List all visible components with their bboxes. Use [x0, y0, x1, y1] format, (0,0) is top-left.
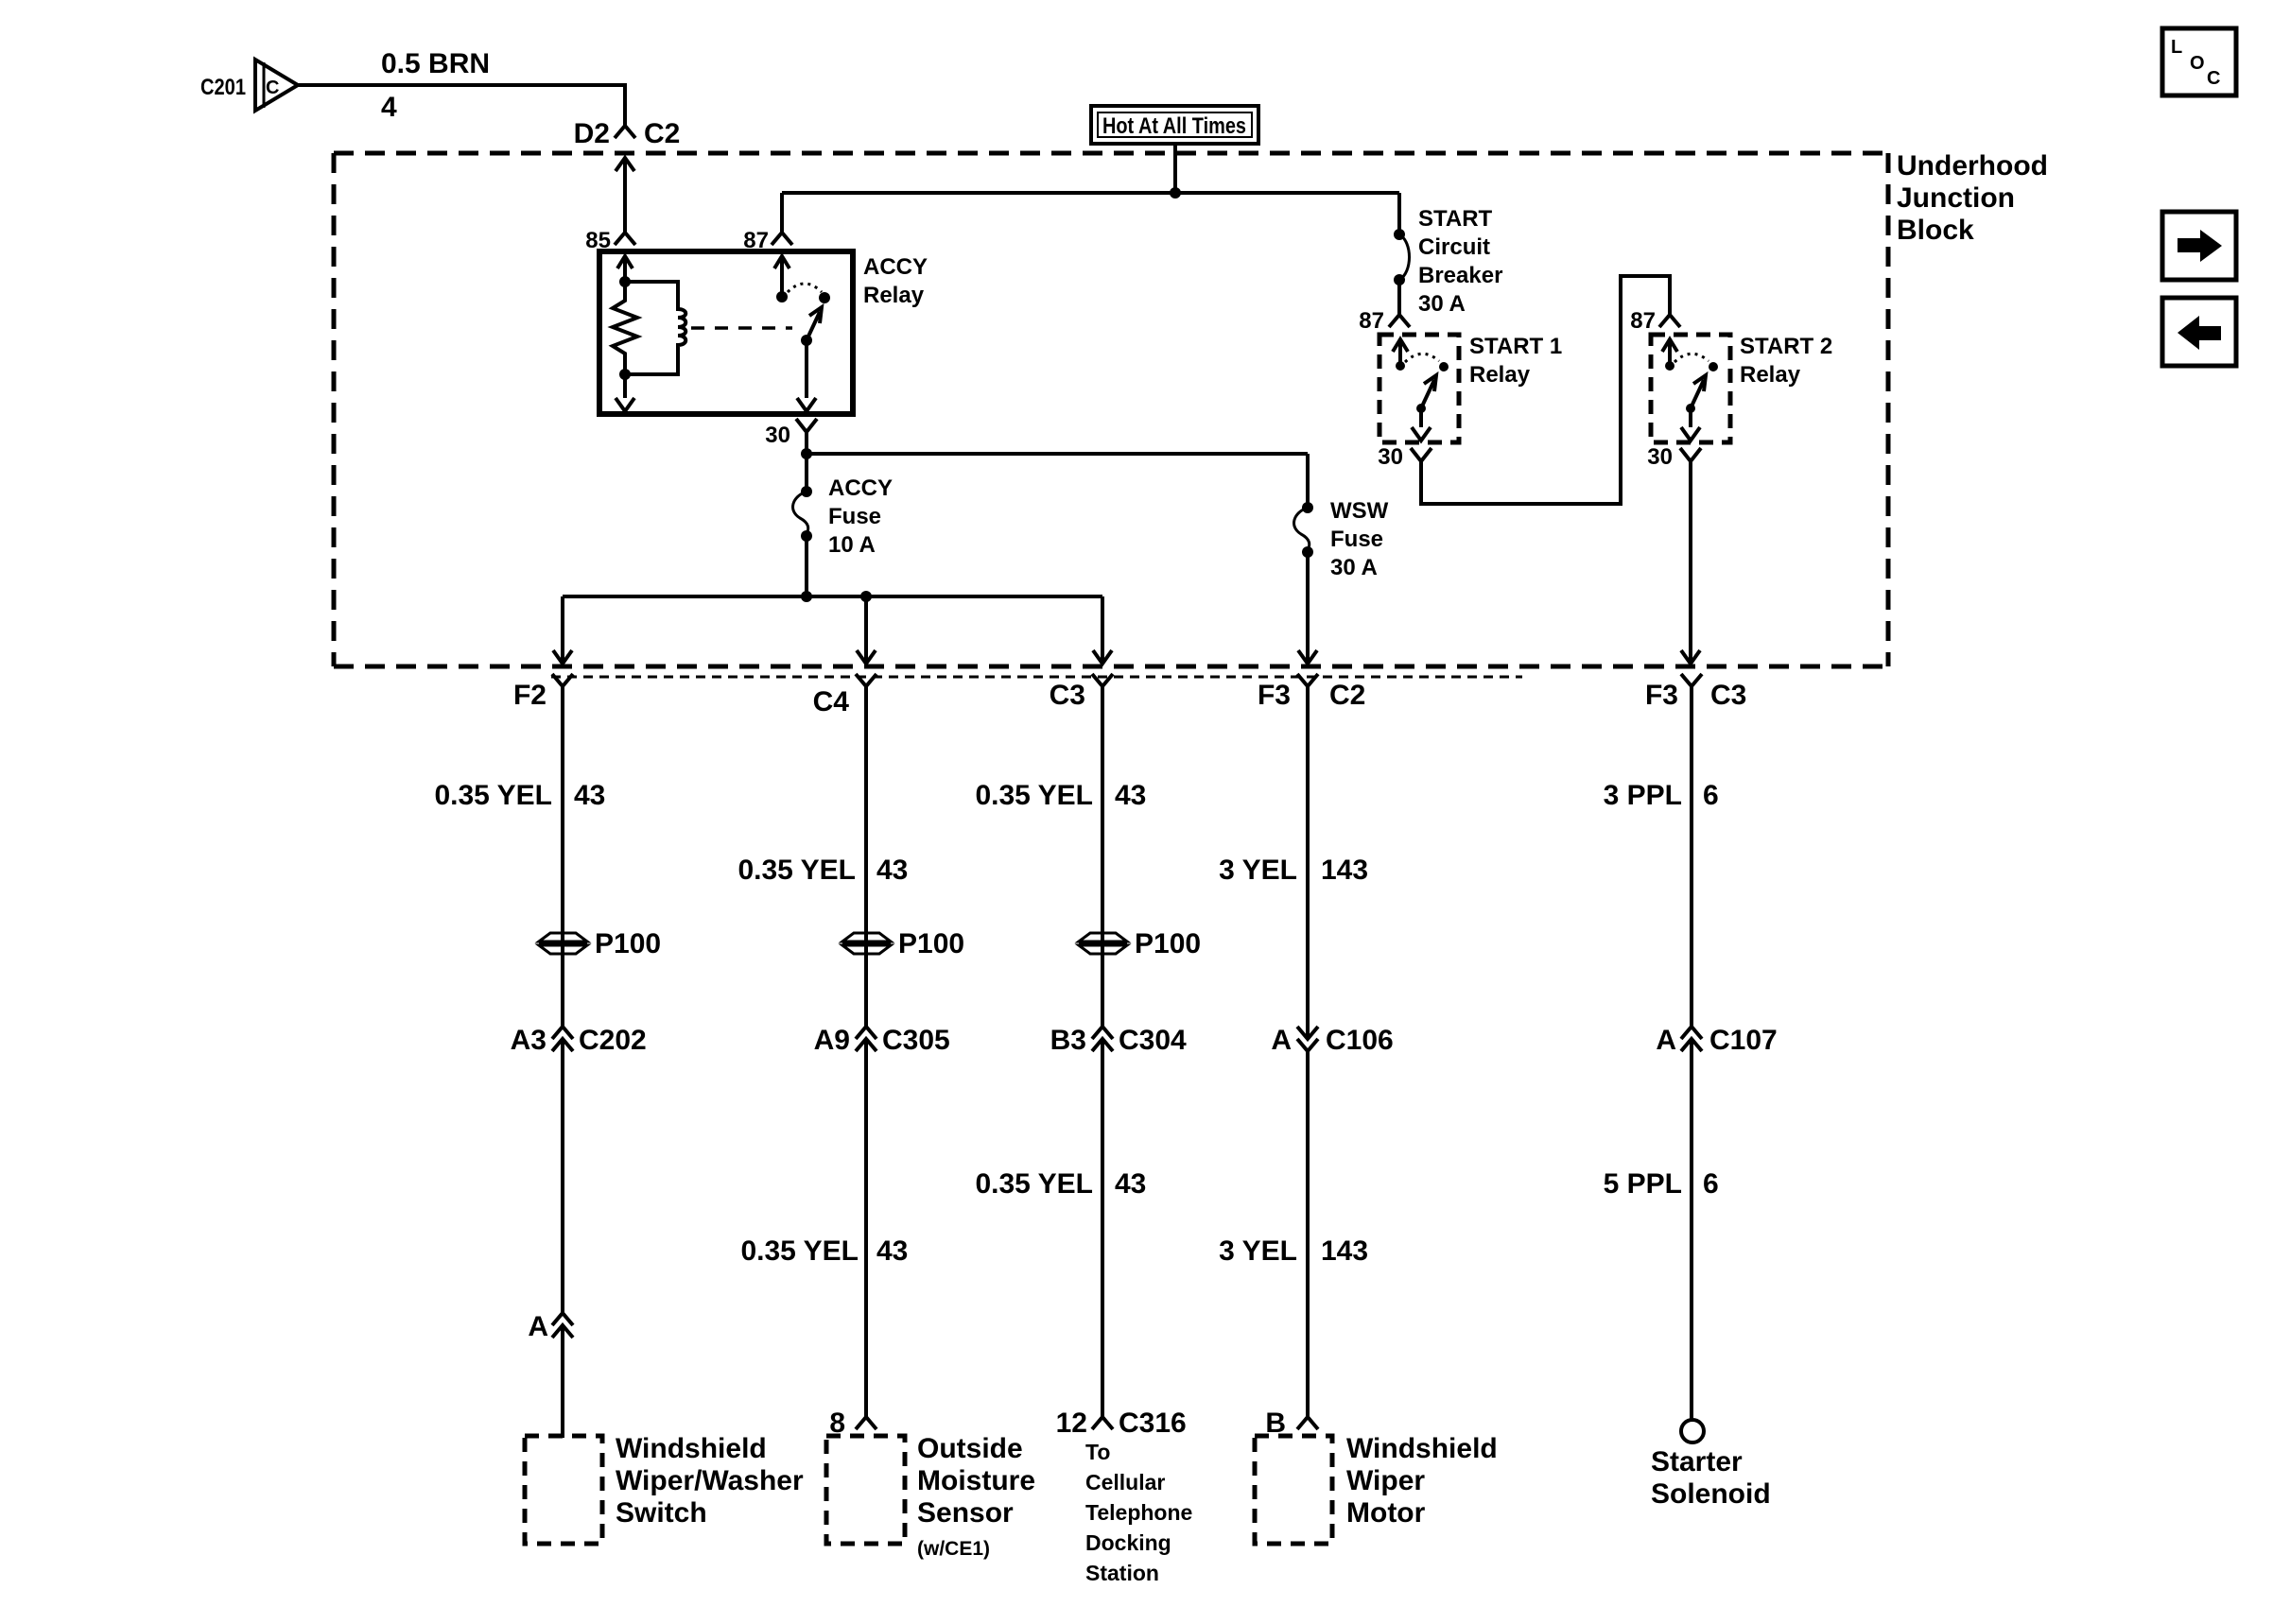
svg-text:A: A: [1271, 1025, 1292, 1056]
svg-text:Underhood: Underhood: [1897, 150, 2048, 181]
column C4: wire to outside moisture sensor: [864, 686, 868, 1027]
terminal 87 of START 2 relay: [1630, 308, 1680, 334]
svg-text:F2: F2: [513, 680, 547, 711]
svg-text:Junction: Junction: [1897, 182, 2015, 214]
svg-text:WSW: WSW: [1330, 498, 1389, 524]
svg-text:Starter: Starter: [1651, 1446, 1743, 1477]
wire drop to F2: [553, 596, 572, 664]
junction block boundary Underhood Junction Block: [334, 153, 1888, 666]
wire from ACCY relay 30 to fuse and WSW branch: [807, 432, 1308, 454]
svg-text:30 A: 30 A: [1418, 291, 1466, 317]
svg-text:ACCY: ACCY: [863, 254, 928, 280]
svg-text:0.35 YEL: 0.35 YEL: [975, 780, 1093, 811]
svg-text:Station: Station: [1085, 1561, 1159, 1585]
ACCY relay U1: [599, 251, 928, 414]
svg-text:30: 30: [1647, 444, 1673, 470]
svg-text:C: C: [2207, 68, 2220, 89]
svg-text:Cellular: Cellular: [1085, 1470, 1165, 1494]
svg-text:0.35 YEL: 0.35 YEL: [737, 855, 856, 886]
svg-text:Docking: Docking: [1085, 1530, 1171, 1555]
svg-text:Moisture: Moisture: [917, 1465, 1035, 1496]
svg-text:43: 43: [876, 1235, 908, 1267]
svg-text:Fuse: Fuse: [1330, 527, 1383, 552]
svg-text:Telephone: Telephone: [1085, 1500, 1192, 1525]
relay contact dotted arc: [788, 284, 822, 292]
svg-text:ACCY: ACCY: [828, 475, 893, 501]
svg-text:(w/CE1): (w/CE1): [917, 1538, 990, 1560]
wire from Hot At All Times tag down to feeder: [1173, 144, 1177, 193]
svg-text:C304: C304: [1119, 1025, 1187, 1056]
connector A / C106: [1271, 1025, 1393, 1056]
resistor (coil suppression): [613, 282, 637, 374]
svg-text:P100: P100: [595, 928, 661, 959]
svg-text:C2: C2: [644, 118, 680, 149]
svg-text:C316: C316: [1119, 1408, 1187, 1439]
connector A / C107: [1656, 1025, 1777, 1056]
wire from START 2 relay 30 to bottom border: [1681, 461, 1700, 664]
connector C3 at junction block face: [1050, 674, 1113, 711]
svg-text:0.35 YEL: 0.35 YEL: [740, 1235, 859, 1267]
grommet P100 (C3): [1079, 928, 1201, 959]
relay actuation dashed link: [691, 326, 792, 330]
START 2 relay: [1651, 334, 1832, 442]
relay switch terminal 87 lead: [774, 256, 789, 268]
distribution wire from ACCY fuse: [553, 591, 1112, 664]
svg-text:43: 43: [876, 855, 908, 886]
column F2: wire to windshield wiper/washer switch: [561, 686, 564, 1027]
svg-text:C3: C3: [1050, 680, 1085, 711]
svg-text:Fuse: Fuse: [828, 504, 881, 529]
terminal 30 of START 2 relay: [1647, 444, 1701, 470]
column F3/C3: wire to starter solenoid: [1690, 686, 1693, 1027]
START circuit breaker: [1394, 193, 1502, 317]
WSW fuse F2: [1294, 454, 1389, 664]
Hot At All Times tag: [1091, 106, 1258, 144]
wire terminal 85 riser: [585, 158, 635, 253]
svg-text:0.35 YEL: 0.35 YEL: [975, 1168, 1093, 1200]
terminal 8 of outside moisture sensor: [829, 1408, 876, 1439]
connector C4 at junction block face: [813, 674, 876, 717]
connector 12 / C316: [1056, 1408, 1187, 1439]
svg-text:Relay: Relay: [1740, 362, 1801, 388]
svg-text:C305: C305: [882, 1025, 950, 1056]
svg-text:C201: C201: [200, 75, 246, 100]
svg-text:C2: C2: [1329, 680, 1365, 711]
svg-text:0.35 YEL: 0.35 YEL: [434, 780, 552, 811]
relay coil: [625, 282, 685, 374]
svg-text:C202: C202: [579, 1025, 647, 1056]
svg-text:0.5 BRN: 0.5 BRN: [381, 48, 490, 79]
wire from START 1 relay 30 to START 2 relay 87: [1421, 276, 1670, 504]
label Underhood Junction Block: [1897, 150, 2048, 246]
svg-text:Breaker: Breaker: [1418, 263, 1502, 288]
svg-text:Block: Block: [1897, 215, 1974, 246]
terminal 87 of START 1 relay: [1359, 308, 1410, 334]
svg-text:C: C: [266, 78, 279, 98]
column C2: wire to windshield wiper motor: [1306, 686, 1310, 1039]
svg-text:A3: A3: [511, 1025, 547, 1056]
terminal B of windshield wiper motor: [1265, 1408, 1318, 1439]
connector F2 at junction block face: [513, 674, 573, 711]
wire drop to C4: [857, 596, 876, 664]
svg-text:12: 12: [1056, 1408, 1087, 1439]
svg-text:Switch: Switch: [616, 1497, 707, 1529]
svg-text:Sensor: Sensor: [917, 1497, 1014, 1529]
svg-text:L: L: [2171, 37, 2182, 58]
svg-text:D2: D2: [574, 118, 610, 149]
windshield wiper/washer switch box: [525, 1433, 804, 1544]
svg-text:87: 87: [1630, 308, 1656, 334]
svg-text:6: 6: [1703, 1168, 1719, 1200]
outside moisture sensor box: [826, 1433, 1035, 1560]
svg-text:C3: C3: [1710, 680, 1746, 711]
svg-text:B3: B3: [1050, 1025, 1086, 1056]
windshield wiper motor box: [1255, 1433, 1498, 1544]
svg-text:Windshield: Windshield: [616, 1433, 767, 1464]
svg-text:143: 143: [1321, 1235, 1368, 1267]
column C3: wire to cellular telephone docking station: [1101, 686, 1104, 1027]
right arrow navigation box: [2162, 212, 2236, 280]
svg-text:30: 30: [1378, 444, 1403, 470]
connector A3 / C202: [511, 1025, 647, 1056]
svg-text:Relay: Relay: [1469, 362, 1531, 388]
svg-text:3 YEL: 3 YEL: [1219, 855, 1297, 886]
wire drop to C3: [1093, 596, 1112, 664]
svg-text:Outside: Outside: [917, 1433, 1023, 1464]
ACCY fuse F1: [793, 454, 893, 596]
LOC legend box: [2162, 28, 2236, 95]
svg-text:Wiper: Wiper: [1346, 1465, 1425, 1496]
svg-text:START 1: START 1: [1469, 334, 1562, 359]
svg-text:F3: F3: [1258, 680, 1291, 711]
junction node on feeder: [1170, 187, 1181, 199]
connector A (wiper switch): [528, 1311, 573, 1342]
svg-text:Relay: Relay: [863, 283, 925, 308]
svg-text:C107: C107: [1709, 1025, 1778, 1056]
grommet P100 (C4): [842, 928, 964, 959]
svg-text:F3: F3: [1645, 680, 1678, 711]
svg-text:C4: C4: [813, 686, 850, 717]
svg-text:O: O: [2190, 53, 2205, 74]
junction block connector face (thin dashed): [551, 676, 1522, 679]
svg-text:30: 30: [765, 423, 790, 448]
START 1 relay: [1379, 334, 1562, 442]
svg-text:Windshield: Windshield: [1346, 1433, 1498, 1464]
svg-text:43: 43: [1115, 1168, 1146, 1200]
terminal 30 of ACCY relay: [765, 419, 817, 448]
connector F3/C3 at junction block face: [1645, 674, 1746, 711]
svg-text:43: 43: [574, 780, 605, 811]
starter solenoid terminal: [1651, 1420, 1771, 1510]
svg-text:P100: P100: [898, 928, 964, 959]
connector B3 / C304: [1050, 1025, 1187, 1056]
svg-text:A: A: [528, 1311, 548, 1342]
svg-text:10 A: 10 A: [828, 532, 876, 558]
wire 0.5 BRN from C201 to junction block: [298, 85, 625, 126]
svg-text:30 A: 30 A: [1330, 555, 1378, 580]
svg-text:6: 6: [1703, 780, 1719, 811]
relay switch blade: [807, 312, 820, 340]
svg-text:C106: C106: [1326, 1025, 1394, 1056]
svg-text:Circuit: Circuit: [1418, 234, 1490, 260]
label To Cellular Telephone Docking Station: [1085, 1440, 1192, 1585]
feeder wire: [782, 191, 1399, 195]
svg-text:P100: P100: [1135, 928, 1201, 959]
svg-text:4: 4: [381, 92, 397, 123]
svg-text:43: 43: [1115, 780, 1146, 811]
svg-text:To: To: [1085, 1440, 1110, 1464]
svg-text:5 PPL: 5 PPL: [1604, 1168, 1682, 1200]
svg-text:Solenoid: Solenoid: [1651, 1478, 1771, 1510]
terminal 30 of START 1 relay: [1378, 444, 1431, 470]
svg-text:143: 143: [1321, 855, 1368, 886]
svg-text:Motor: Motor: [1346, 1497, 1426, 1529]
svg-text:A: A: [1656, 1025, 1676, 1056]
svg-text:Wiper/Washer: Wiper/Washer: [616, 1465, 804, 1496]
svg-text:A9: A9: [814, 1025, 850, 1056]
svg-text:3 YEL: 3 YEL: [1219, 1235, 1297, 1267]
connector A9 / C305: [814, 1025, 950, 1056]
svg-text:START 2: START 2: [1740, 334, 1832, 359]
svg-text:Hot At All Times: Hot At All Times: [1102, 113, 1246, 139]
connector C201: [200, 60, 298, 111]
relay coil terminal 85 lead: [617, 256, 633, 268]
wire terminal 87 riser (ACCY): [743, 193, 792, 253]
svg-text:3 PPL: 3 PPL: [1604, 780, 1682, 811]
grommet P100 (F2): [539, 928, 661, 959]
connector D2/C2: [574, 118, 681, 149]
left arrow navigation box: [2162, 298, 2236, 366]
svg-text:START: START: [1418, 206, 1493, 232]
svg-text:87: 87: [1359, 308, 1384, 334]
connector F3/C2 at junction block face: [1258, 674, 1365, 711]
